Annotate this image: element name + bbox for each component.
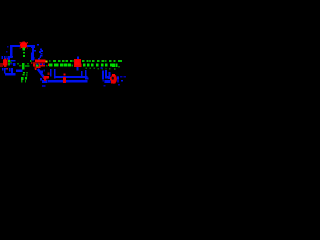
LED D1	[20, 41, 29, 48]
net N$1 vertical dashed	[22, 52, 25, 76]
bus (thick dashed horizontal)	[36, 64, 118, 68]
C3 value label	[103, 80, 111, 87]
net (thin dashed horizontal)	[49, 60, 122, 62]
J1 labels (blue)	[10, 60, 16, 66]
label L2	[2, 68, 13, 74]
label cluster (blue text)	[40, 78, 48, 87]
LED D1 cathode pin	[23, 48, 25, 51]
wire to lamp right	[117, 76, 119, 82]
junction dot (yellow)	[46, 61, 48, 63]
pin tick red	[63, 77, 66, 83]
wire	[10, 45, 20, 47]
wire	[27, 45, 35, 47]
wire to lamp left	[108, 77, 110, 79]
junction dot	[37, 44, 39, 46]
pin dots	[36, 63, 44, 65]
label dashes right of lamp	[118, 76, 126, 86]
wire	[16, 69, 23, 72]
wire corner	[31, 45, 35, 48]
emitter pad	[43, 76, 46, 79]
wire	[5, 73, 16, 75]
wire (diagonal emitter)	[38, 69, 45, 78]
capacitor C4 plates	[81, 70, 89, 80]
node dot	[6, 51, 8, 53]
C3 pin tick	[110, 77, 112, 81]
bus red segments	[33, 64, 82, 68]
net N$1 side dashes	[17, 63, 30, 77]
label LDT	[2, 56, 14, 60]
transistor Q1 (squiggle)	[38, 49, 43, 60]
wire	[10, 45, 12, 58]
connector J1	[0, 58, 8, 67]
lamp M1 (red ring)	[111, 74, 117, 84]
wire foot	[31, 53, 34, 58]
net label (green text)	[21, 77, 27, 82]
capacitor C3	[102, 70, 111, 80]
resistor R1	[31, 60, 45, 64]
wire	[32, 47, 34, 61]
wire (upper rail)	[54, 76, 88, 78]
capacitor C2 on net	[74, 57, 81, 71]
bus secondary dashes	[46, 65, 120, 70]
net dash	[30, 60, 32, 62]
J1 pins (green)	[8, 60, 12, 66]
wire (lower rail)	[48, 80, 88, 82]
pin dot	[7, 68, 9, 70]
node A	[7, 46, 9, 48]
transistor Q2	[35, 66, 41, 70]
pin dot	[43, 70, 45, 72]
capacitor C1	[46, 69, 55, 79]
pin dot	[101, 67, 103, 69]
wire stub	[34, 50, 36, 52]
junction dot red	[64, 74, 66, 76]
